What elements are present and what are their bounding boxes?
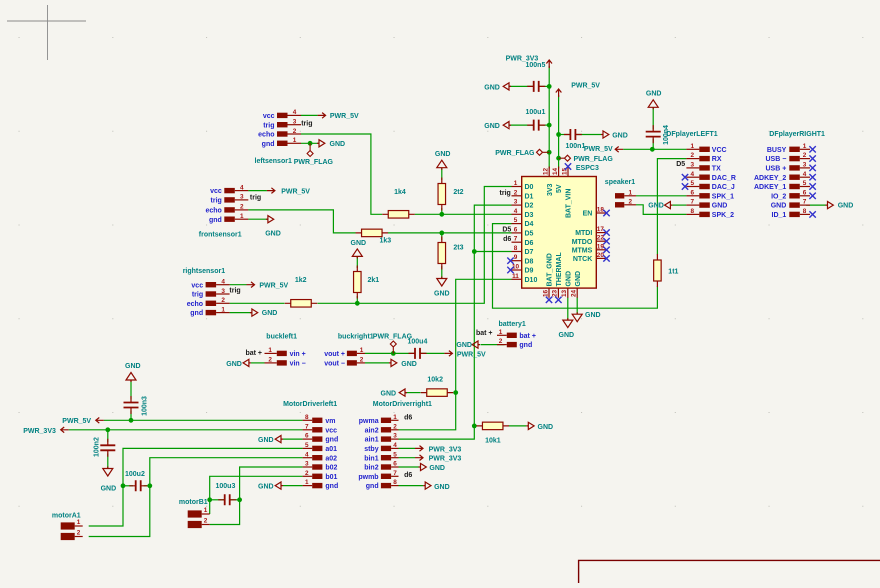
ground GND above 100n3 <box>125 363 141 382</box>
svg-text:4: 4 <box>221 279 225 286</box>
svg-text:2: 2 <box>221 297 225 304</box>
svg-text:10k1: 10k1 <box>485 437 501 444</box>
wire PWR_3V3 to vcc <box>69 429 303 431</box>
wire leftsensor echo to 1k4 <box>301 134 382 214</box>
svg-text:D1: D1 <box>525 193 534 200</box>
no-connect DFplayerRIGHT pin2 <box>809 155 815 161</box>
wire PWR_5V rail to ESP pin14 <box>558 95 560 169</box>
no-connect DFplayerLEFT DAC_R <box>682 174 688 180</box>
svg-text:6: 6 <box>803 189 807 196</box>
svg-text:9: 9 <box>514 254 518 261</box>
svg-text:12: 12 <box>543 167 550 175</box>
svg-text:echo: echo <box>205 208 221 215</box>
wire frontsensor vcc to PWR_5V <box>248 190 267 192</box>
module ESPC3 body <box>522 177 597 289</box>
power label PWR_5V at buckright output <box>444 351 486 359</box>
no-connect DFplayerRIGHT pin3 <box>809 165 815 171</box>
svg-text:bin2: bin2 <box>364 465 378 472</box>
svg-text:100u3: 100u3 <box>216 483 236 490</box>
svg-text:4: 4 <box>393 442 397 449</box>
wire ESP pin24 to GND <box>576 298 578 315</box>
svg-text:2: 2 <box>240 204 244 211</box>
svg-text:GND: GND <box>330 141 346 148</box>
svg-text:3: 3 <box>221 288 225 295</box>
svg-text:1: 1 <box>293 137 297 144</box>
ESPC3 right pin EN <box>583 207 607 218</box>
wire GND to MotorDriverleft gnd6 <box>283 438 303 440</box>
svg-text:PWR_5V: PWR_5V <box>330 113 359 120</box>
svg-text:MTMS: MTMS <box>572 247 593 254</box>
wire 100n4 bottom to VCC net <box>652 139 654 149</box>
svg-text:GND: GND <box>101 486 117 493</box>
svg-text:ADKEY_2: ADKEY_2 <box>754 175 786 182</box>
svg-text:ain1: ain1 <box>365 437 379 444</box>
wire ain1 net to 10k1 <box>474 425 477 427</box>
svg-text:4: 4 <box>514 208 518 215</box>
svg-text:6: 6 <box>305 433 309 440</box>
wire stby to PWR_3V3 <box>399 447 416 449</box>
svg-text:echo: echo <box>187 301 203 308</box>
ground GND at 100n5 <box>484 83 511 92</box>
node 100u2 left junction <box>121 483 126 488</box>
connector battery1 <box>497 321 536 349</box>
svg-text:GND: GND <box>575 271 582 287</box>
node buckright PWR_FLAG junction <box>391 351 396 356</box>
wire PWR_3V3 net to 100n2 <box>107 430 109 442</box>
svg-text:14: 14 <box>552 167 559 175</box>
svg-text:TX: TX <box>712 166 721 173</box>
svg-text:GND: GND <box>456 342 472 349</box>
svg-text:10k2: 10k2 <box>427 376 443 383</box>
svg-text:GND: GND <box>351 240 367 247</box>
svg-text:2t3: 2t3 <box>453 244 463 251</box>
ESPC3 left pins D0-D10 <box>512 180 538 284</box>
node 100u1 junction <box>547 123 552 128</box>
svg-text:vout +: vout + <box>324 351 345 358</box>
svg-text:GND: GND <box>484 84 500 91</box>
wire GND to 10k2 <box>405 392 420 394</box>
svg-text:ain2: ain2 <box>365 427 379 434</box>
connector buckleft1 <box>265 334 306 368</box>
capacitor 100u1 <box>526 109 546 131</box>
wire GND to 2t2 top <box>441 168 443 181</box>
svg-text:PWR_3V3: PWR_3V3 <box>429 446 462 453</box>
svg-text:EN: EN <box>583 211 593 218</box>
svg-text:D6: D6 <box>525 240 534 247</box>
svg-text:D9: D9 <box>525 268 534 275</box>
svg-text:SPK_2: SPK_2 <box>712 212 734 219</box>
wire MotorDriverright gnd to GND <box>399 485 424 487</box>
svg-text:GND: GND <box>381 391 397 398</box>
svg-text:GND: GND <box>429 465 445 472</box>
svg-text:speaker1: speaker1 <box>605 179 635 186</box>
svg-text:100u2: 100u2 <box>125 471 145 478</box>
svg-text:bat +: bat + <box>519 333 536 340</box>
no-connect ESPC3 pin15 BAT_VIN <box>565 163 571 169</box>
wire frontsensor gnd to GND <box>248 218 268 220</box>
connector DFplayerRIGHT1 <box>754 131 825 219</box>
svg-text:100n3: 100n3 <box>141 396 148 416</box>
svg-text:1: 1 <box>629 189 633 196</box>
svg-text:8: 8 <box>514 245 518 252</box>
svg-text:1t1: 1t1 <box>668 268 678 275</box>
svg-text:bat +: bat + <box>476 330 493 337</box>
ground GND at ESPC3 pin24 <box>572 312 600 322</box>
node 10k1-ain1 junction <box>472 424 477 429</box>
svg-text:2: 2 <box>499 338 503 345</box>
svg-text:vcc: vcc <box>325 427 337 434</box>
connector MotorDriverleft1 <box>283 401 338 490</box>
capacitor 100n4 <box>646 125 670 145</box>
svg-text:100n1: 100n1 <box>566 143 586 150</box>
svg-text:D0: D0 <box>525 184 534 191</box>
svg-text:trig: trig <box>500 190 511 197</box>
svg-text:stby: stby <box>364 446 379 453</box>
svg-text:3: 3 <box>514 199 518 206</box>
svg-text:GND: GND <box>771 203 787 210</box>
svg-text:echo: echo <box>258 132 274 139</box>
svg-text:1: 1 <box>221 306 225 313</box>
wire speaker pin1 to SPK_1 <box>636 195 686 197</box>
wire 100u2 left <box>123 485 133 487</box>
no-connect ESPC3 EN <box>603 210 609 216</box>
svg-text:5: 5 <box>393 451 397 458</box>
wire 100n2 to GND <box>107 453 109 468</box>
svg-text:trig: trig <box>192 292 203 299</box>
svg-text:gnd: gnd <box>366 483 379 490</box>
svg-text:1: 1 <box>499 329 503 336</box>
svg-text:GND: GND <box>585 312 601 319</box>
svg-text:a01: a01 <box>325 446 337 453</box>
svg-text:D7: D7 <box>525 249 534 256</box>
svg-text:PWR_FLAG: PWR_FLAG <box>373 334 413 341</box>
svg-text:frontsensor1: frontsensor1 <box>199 232 242 239</box>
ground GND at speaker/DFplayerLEFT pin7 <box>648 202 672 210</box>
ESPC3 right pin NTCK <box>573 252 607 263</box>
ground GND at MotorDriverleft pin6 <box>258 436 283 444</box>
no-connect ESPC3 MTMS <box>603 247 609 253</box>
svg-text:3: 3 <box>803 162 807 169</box>
ground GND above 2t2 <box>435 151 451 170</box>
svg-text:GND: GND <box>838 203 854 210</box>
resistor 1k3 <box>356 229 392 244</box>
svg-text:motorB1: motorB1 <box>179 499 208 506</box>
svg-text:7: 7 <box>305 423 309 430</box>
svg-text:PWR_5V: PWR_5V <box>259 283 288 290</box>
svg-text:2: 2 <box>360 357 364 364</box>
svg-text:1: 1 <box>77 519 81 526</box>
wire speaker pin2 to SPK_2 <box>636 205 686 215</box>
ground GND below 100n2 <box>101 467 117 493</box>
svg-text:8: 8 <box>305 414 309 421</box>
svg-text:GND: GND <box>559 332 575 339</box>
svg-text:THERMAL: THERMAL <box>556 252 563 287</box>
svg-text:vcc: vcc <box>263 113 275 120</box>
svg-text:4: 4 <box>305 451 309 458</box>
wire PWR_5V to vm <box>104 419 303 421</box>
no-connect ESPC3 pin23 <box>555 297 561 303</box>
svg-text:d6: d6 <box>404 472 412 479</box>
svg-text:1: 1 <box>691 143 695 150</box>
ESPC3 right pin MTMS <box>572 243 607 254</box>
svg-text:vcc: vcc <box>191 282 203 289</box>
svg-text:GND: GND <box>226 361 242 368</box>
wire DFplayerLEFT RX to 1t1 top <box>657 159 686 255</box>
svg-text:gnd: gnd <box>190 310 203 317</box>
capacitor 100n5 <box>526 62 546 92</box>
svg-text:trig: trig <box>250 195 261 202</box>
wire battery gnd to GND <box>481 344 505 346</box>
svg-text:DFplayerRIGHT1: DFplayerRIGHT1 <box>769 131 825 138</box>
svg-text:PWR_5V: PWR_5V <box>571 82 600 89</box>
svg-text:BAT_GND: BAT_GND <box>547 253 554 286</box>
node 2k1-echo junction <box>355 301 360 306</box>
wire ESP D7 to ain1 net <box>474 251 511 253</box>
svg-text:PWR_FLAG: PWR_FLAG <box>495 150 535 157</box>
ground GND above 2k1 <box>351 240 367 258</box>
svg-text:3: 3 <box>305 461 309 468</box>
svg-text:ID_1: ID_1 <box>772 212 787 219</box>
svg-text:100n2: 100n2 <box>93 437 100 457</box>
svg-text:7: 7 <box>803 199 807 206</box>
svg-text:1: 1 <box>240 213 244 220</box>
capacitor 100n2 <box>93 437 115 457</box>
connector motorA1 <box>52 513 83 540</box>
svg-text:gnd: gnd <box>209 217 222 224</box>
node 100n4-VCC junction <box>650 147 655 152</box>
svg-text:1: 1 <box>268 347 272 354</box>
node 100n5 junction <box>547 84 552 89</box>
power label PWR_3V3 to MotorDriver vcc <box>23 427 68 435</box>
ground GND at frontsensor <box>265 216 281 238</box>
svg-text:GND: GND <box>434 484 450 491</box>
wire PWR_3V3 rail to ESP pin12 <box>548 66 550 169</box>
node PWR_FLAG2 junction <box>556 156 561 161</box>
svg-text:buckright1: buckright1 <box>338 334 374 341</box>
wire 1k4 junction to ESP D3 <box>415 213 512 215</box>
no-connect DFplayerRIGHT pin5 <box>809 183 815 189</box>
wire 10k1 to GND <box>509 425 527 427</box>
ground GND at 10k1 <box>526 422 553 431</box>
svg-text:23: 23 <box>552 289 559 297</box>
no-connect DFplayerRIGHT pin8 <box>809 211 815 217</box>
svg-text:24: 24 <box>571 289 578 297</box>
power flag PWR_FLAG2 <box>559 155 614 163</box>
node leftsensor gnd junction <box>308 141 313 146</box>
svg-text:2: 2 <box>691 152 695 159</box>
svg-text:GND: GND <box>538 424 554 431</box>
svg-text:4: 4 <box>240 184 244 191</box>
no-connect ESPC3 NTCK <box>603 255 609 261</box>
svg-text:MotorDriverright1: MotorDriverright1 <box>373 401 432 408</box>
wire ESP D10 to MotorDriverright ain2 <box>399 279 512 430</box>
svg-text:NTCK: NTCK <box>573 256 592 263</box>
svg-text:6: 6 <box>393 461 397 468</box>
wire bin1 to PWR_3V3 <box>399 457 416 459</box>
wire 10k2 to ain2 net <box>454 392 456 394</box>
wire 2t3 bottom to GND <box>441 266 443 278</box>
ground GND at rightsensor <box>250 309 277 317</box>
svg-text:100n5: 100n5 <box>526 62 546 69</box>
svg-text:rightsensor1: rightsensor1 <box>183 268 226 275</box>
svg-text:vout −: vout − <box>324 361 345 368</box>
sheet origin crosshair <box>47 5 49 60</box>
capacitor 100u2 <box>125 471 147 492</box>
svg-text:leftsensor1: leftsensor1 <box>255 158 292 165</box>
resistor 2t3 <box>438 237 464 270</box>
ground GND at buckright vout- <box>389 359 417 368</box>
svg-text:BUSY: BUSY <box>767 147 787 154</box>
no-connect DFplayerRIGHT pin6 <box>809 193 815 199</box>
svg-text:D5: D5 <box>502 227 511 234</box>
svg-text:D4: D4 <box>525 221 534 228</box>
svg-text:D5: D5 <box>676 161 685 168</box>
svg-text:1: 1 <box>803 143 807 150</box>
svg-text:pwma: pwma <box>359 418 379 425</box>
no-connect ESPC3 D9 <box>507 267 513 273</box>
ESPC3 right pin MTDI <box>575 226 606 237</box>
wire a02 net <box>89 458 303 537</box>
svg-text:1: 1 <box>360 347 364 354</box>
svg-text:d6: d6 <box>404 414 412 421</box>
svg-text:ADKEY_1: ADKEY_1 <box>754 184 786 191</box>
svg-text:1: 1 <box>514 180 518 187</box>
svg-text:gnd: gnd <box>519 342 532 349</box>
ground GND at DFplayerRIGHT pin7 <box>826 202 854 210</box>
wire rightsensor gnd to GND <box>230 312 252 314</box>
svg-text:gnd: gnd <box>262 141 275 148</box>
svg-text:16: 16 <box>542 289 549 297</box>
node 2t2-1k4-D3 junction <box>439 212 444 217</box>
wire 100u2 right <box>144 485 150 487</box>
connector rightsensor1 <box>183 268 230 317</box>
svg-text:5: 5 <box>691 180 695 187</box>
capacitor 100n1 <box>564 129 586 150</box>
svg-text:buckleft1: buckleft1 <box>266 334 297 341</box>
wire ESP pin13 to GND <box>567 298 569 321</box>
svg-text:vcc: vcc <box>210 188 222 195</box>
wire 100n5 left to GND <box>509 85 533 87</box>
svg-text:MotorDriverleft1: MotorDriverleft1 <box>283 401 337 408</box>
svg-text:2: 2 <box>204 518 208 525</box>
wire PWR_5V to DFplayerLEFT VCC <box>623 148 686 150</box>
svg-text:1k4: 1k4 <box>394 189 406 196</box>
svg-text:GND: GND <box>435 151 451 158</box>
ground GND at 10k2 <box>381 389 408 398</box>
resistor 10k1 <box>476 422 509 444</box>
svg-text:3V3: 3V3 <box>547 183 554 196</box>
wire 100n3 to PWR_5V net <box>130 411 132 421</box>
node PWR_FLAG1 junction <box>547 150 552 155</box>
svg-text:PWR_5V: PWR_5V <box>62 418 91 425</box>
svg-text:D3: D3 <box>525 212 534 219</box>
svg-text:GND: GND <box>434 290 450 297</box>
svg-text:8: 8 <box>803 208 807 215</box>
node PWR_3V3-100n2 junction <box>105 427 110 432</box>
svg-text:2: 2 <box>803 152 807 159</box>
power PWR_5V rail arrow <box>556 82 601 97</box>
svg-text:2: 2 <box>268 357 272 364</box>
no-connect ESPC3 MTDO <box>603 238 609 244</box>
svg-text:D8: D8 <box>525 258 534 265</box>
svg-text:7: 7 <box>691 199 695 206</box>
svg-text:2: 2 <box>514 189 518 196</box>
svg-text:pwmb: pwmb <box>358 474 378 481</box>
svg-text:PWR_FLAG: PWR_FLAG <box>294 159 334 166</box>
svg-text:1: 1 <box>204 507 208 514</box>
svg-text:ESPC3: ESPC3 <box>576 165 599 172</box>
svg-text:PWR_3V3: PWR_3V3 <box>23 428 56 435</box>
svg-text:PWR_3V3: PWR_3V3 <box>506 55 539 62</box>
no-connect DFplayerRIGHT pin1 <box>809 146 815 152</box>
svg-text:GND: GND <box>484 123 500 130</box>
wire GND to 2k1 top <box>356 257 358 269</box>
wire 100n1 right to GND <box>575 134 601 136</box>
power PWR_3V3 rail arrow <box>506 55 552 68</box>
svg-text:GND: GND <box>712 203 728 210</box>
node PWR_5V-100n3 junction <box>129 418 134 423</box>
resistor 2t2 <box>438 178 464 211</box>
svg-text:GND: GND <box>265 231 281 238</box>
svg-text:GND: GND <box>646 91 662 98</box>
resistor 1t1 <box>654 254 679 287</box>
svg-text:7: 7 <box>393 470 397 477</box>
svg-text:vin +: vin + <box>290 351 306 358</box>
resistor 2k1 <box>354 266 380 299</box>
wire b01 net <box>210 476 303 514</box>
wire 2t2 bottom to junction <box>441 208 443 214</box>
wire frontsensor echo to 1k3 <box>248 210 356 233</box>
svg-text:2: 2 <box>393 423 397 430</box>
svg-text:5: 5 <box>803 180 807 187</box>
power flag PWR_FLAG at leftsensor <box>294 143 334 166</box>
svg-text:5: 5 <box>305 442 309 449</box>
connector buckright1 <box>324 334 374 368</box>
power label PWR_5V to MotorDriver vm <box>62 418 103 426</box>
svg-text:gnd: gnd <box>325 437 338 444</box>
svg-text:2k1: 2k1 <box>368 277 380 284</box>
wire DFplayerRIGHT GND to GND <box>806 204 825 206</box>
wire GND to DFplayerLEFT GND <box>672 204 686 206</box>
wire 100n5 right <box>539 85 550 87</box>
no-connect DFplayerLEFT DAC_J <box>682 183 688 189</box>
wire ESP D4 to 1t1 bottom <box>493 224 658 309</box>
svg-text:RX: RX <box>712 156 722 163</box>
svg-text:gnd: gnd <box>325 483 338 490</box>
wire 2k1 bottom to echo net <box>356 296 358 303</box>
svg-text:1: 1 <box>305 479 309 486</box>
svg-text:b01: b01 <box>325 474 337 481</box>
svg-text:GND: GND <box>401 361 417 368</box>
ground GND at MotorDriverleft pin1 <box>258 482 283 490</box>
resistor 1k2 <box>285 277 318 307</box>
ground GND at leftsensor <box>317 140 345 149</box>
ESPC3 top pins 12 14 15 <box>543 167 573 219</box>
wire 100n1 left <box>559 134 571 136</box>
svg-text:USB +: USB + <box>765 166 786 173</box>
ground GND at ESPC3 pin13 <box>559 318 575 339</box>
wire buckright vout- to GND <box>365 362 389 364</box>
svg-text:bat +: bat + <box>245 350 262 357</box>
svg-text:PWR_FLAG: PWR_FLAG <box>574 156 614 163</box>
wire bin2 to GND <box>399 466 419 468</box>
svg-text:8: 8 <box>691 208 695 215</box>
power label PWR_5V at frontsensor <box>267 188 310 196</box>
svg-text:2: 2 <box>293 128 297 135</box>
svg-text:15: 15 <box>561 167 568 175</box>
wire GND cap 100n4 top <box>652 108 654 130</box>
capacitor 100u3 <box>216 483 237 505</box>
